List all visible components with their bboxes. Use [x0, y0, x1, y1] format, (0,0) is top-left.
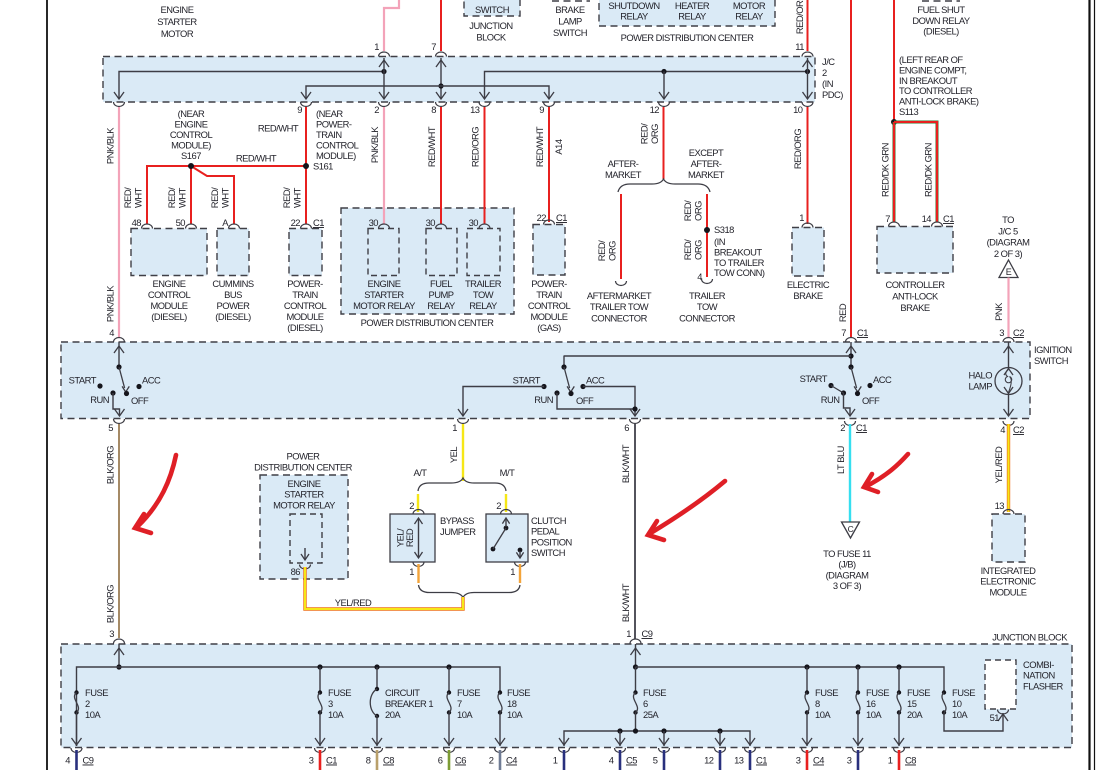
relay internal wire [301, 548, 309, 560]
svg-text:13: 13 [734, 755, 744, 766]
fuse 8 [802, 664, 838, 746]
svg-text:51: 51 [990, 712, 1000, 723]
svg-text:3: 3 [999, 327, 1004, 338]
svg-text:RED/WHT: RED/WHT [534, 126, 545, 167]
svg-text:BLK/ORG: BLK/ORG [105, 446, 116, 484]
svg-text:COMBI-: COMBI- [1023, 659, 1054, 670]
svg-text:FUSE: FUSE [815, 687, 838, 698]
fuse 3 [315, 664, 351, 746]
wire RED/WHT S167 to ECM pin 48 [122, 166, 191, 224]
svg-text:1: 1 [888, 755, 893, 766]
svg-text:RED/DK GRN: RED/DK GRN [923, 143, 934, 197]
ignition switch 3 (right) [564, 342, 892, 416]
svg-text:CONTROL: CONTROL [148, 289, 191, 300]
svg-text:C4: C4 [506, 755, 517, 766]
svg-text:TRAILER: TRAILER [689, 290, 726, 301]
svg-text:RELAY: RELAY [620, 11, 649, 22]
svg-text:7: 7 [457, 698, 462, 709]
wire RED/DK GRN S113 to controller pin 7 [880, 122, 895, 222]
svg-text:8: 8 [431, 104, 436, 115]
svg-text:(DIAGRAM: (DIAGRAM [826, 569, 870, 580]
svg-text:PNK/BLK: PNK/BLK [105, 127, 116, 164]
svg-text:16: 16 [866, 698, 876, 709]
S318 location note [714, 236, 765, 278]
svg-text:CONTROLLER: CONTROLLER [885, 279, 945, 290]
svg-text:1: 1 [510, 566, 515, 577]
pin 1 ignition [452, 419, 468, 433]
svg-text:ENGINE: ENGINE [368, 278, 401, 289]
svg-text:4: 4 [65, 755, 70, 766]
svg-text:(NEAR: (NEAR [178, 108, 205, 119]
svg-text:CONTROL: CONTROL [316, 140, 359, 151]
svg-text:2: 2 [840, 422, 845, 433]
junction block exit 3 C1 [309, 748, 337, 770]
svg-text:14: 14 [922, 213, 932, 224]
clutch pedal position switch caption [531, 515, 572, 558]
svg-text:CONTROL: CONTROL [170, 129, 213, 140]
svg-text:BLK/WHT: BLK/WHT [620, 444, 631, 483]
svg-text:PDC): PDC) [822, 89, 843, 100]
ignition switch 1 (left) [69, 338, 161, 417]
svg-text:ANTI-LOCK BRAKE): ANTI-LOCK BRAKE) [899, 96, 979, 107]
svg-text:SWITCH: SWITCH [553, 27, 587, 38]
svg-text:13: 13 [995, 500, 1005, 511]
junction block label (top) [469, 20, 512, 43]
svg-text:S161: S161 [313, 161, 333, 172]
svg-text:LT BLU: LT BLU [835, 445, 846, 474]
svg-text:TO TRAILER: TO TRAILER [714, 257, 765, 268]
svg-text:ENGINE: ENGINE [175, 119, 208, 130]
svg-text:10A: 10A [457, 709, 473, 720]
svg-text:RED/: RED/ [122, 187, 133, 208]
junction block exit 4 C9 [65, 748, 93, 770]
J/C2 top connectors [374, 41, 813, 57]
svg-text:LAMP: LAMP [968, 381, 992, 392]
svg-text:BLK/ORG: BLK/ORG [105, 585, 116, 623]
wire LT BLU ignition pin2 to fuse 11 [835, 424, 850, 522]
power distribution center box (top) [599, 0, 775, 26]
wire RED/DK GRN S113 to controller pin 14 [894, 122, 937, 222]
trailer tow relay box [467, 229, 500, 276]
svg-text:JUNCTION BLOCK: JUNCTION BLOCK [992, 632, 1068, 643]
after-market label [605, 158, 642, 180]
svg-text:PNK/BLK: PNK/BLK [369, 126, 380, 163]
svg-text:6: 6 [624, 422, 629, 433]
fuse 18 [495, 687, 530, 746]
svg-text:(DIESEL): (DIESEL) [923, 26, 959, 37]
svg-text:BRAKE: BRAKE [555, 4, 585, 15]
wire PNK connector E to ignition pin 3 [993, 278, 1009, 339]
svg-text:POSITION: POSITION [531, 536, 572, 547]
trailer tow connector caption [679, 290, 735, 323]
svg-text:7: 7 [431, 41, 436, 52]
junction block exit 12 [704, 748, 725, 770]
svg-text:FLASHER: FLASHER [1023, 680, 1063, 691]
svg-text:13: 13 [470, 104, 480, 115]
svg-text:30: 30 [369, 217, 379, 228]
wire PNK to J/C 2 pin 1 [384, 0, 399, 51]
svg-text:FUSE: FUSE [328, 687, 351, 698]
pin A [222, 217, 239, 229]
svg-text:RED/: RED/ [596, 240, 607, 261]
svg-text:C1: C1 [556, 212, 567, 223]
svg-text:RED/DK GRN: RED/DK GRN [880, 143, 891, 197]
svg-text:TOW CONN): TOW CONN) [714, 267, 765, 278]
svg-text:ORG: ORG [607, 241, 618, 261]
svg-text:TO CONTROLLER: TO CONTROLLER [899, 85, 973, 96]
svg-text:RED/: RED/ [682, 200, 693, 221]
svg-text:C1: C1 [326, 755, 337, 766]
powertrain control module diesel box [289, 229, 322, 276]
svg-text:RUN: RUN [534, 394, 553, 405]
trailer tow relay caption [465, 278, 502, 311]
svg-text:CONTROL: CONTROL [528, 300, 571, 311]
pin 5 ignition [108, 419, 124, 433]
svg-text:1: 1 [409, 566, 414, 577]
svg-text:1: 1 [626, 628, 631, 639]
svg-text:YEL/RED: YEL/RED [993, 446, 1004, 483]
svg-text:ORG: ORG [693, 201, 704, 221]
wire RED/ORG J/C2 pin12 to split [639, 107, 664, 179]
svg-text:1: 1 [452, 422, 457, 433]
J/C2 internal wire upper-right [480, 69, 811, 99]
to J/C 5 note [987, 214, 1031, 259]
integrated electronic module caption [980, 565, 1036, 597]
svg-text:9: 9 [539, 104, 544, 115]
svg-text:6: 6 [643, 698, 648, 709]
svg-text:1: 1 [374, 41, 379, 52]
junction block exit 13 C1 [734, 748, 767, 770]
svg-text:AFTER-: AFTER- [691, 158, 722, 169]
svg-text:S167: S167 [181, 150, 201, 161]
combination flasher caption [1023, 659, 1063, 691]
bypass jumper box [390, 514, 435, 562]
svg-text:2: 2 [822, 67, 827, 78]
svg-text:MODULE: MODULE [530, 311, 567, 322]
wire RED/ORG to J/C 2 pin 11 [794, 0, 808, 52]
wire ORG clutch switch pin 1 [510, 562, 525, 583]
junction block entry pin 1 C9 [630, 639, 641, 670]
wire RED/ORG to trailer tow connector via S318 [682, 194, 713, 284]
svg-text:MODULE): MODULE) [316, 150, 356, 161]
splice S167 label [170, 108, 213, 161]
svg-text:BLK/WHT: BLK/WHT [620, 583, 631, 622]
svg-text:MODULE): MODULE) [171, 140, 211, 151]
svg-text:2: 2 [409, 500, 414, 511]
motor relay label [733, 0, 766, 22]
wire YEL/RED merge to relay pin 86 [305, 567, 463, 609]
svg-text:FUSE: FUSE [507, 687, 530, 698]
svg-text:10A: 10A [952, 709, 968, 720]
pin 7 controller [885, 213, 899, 227]
svg-text:OFF: OFF [131, 395, 149, 406]
svg-text:RED/WHT: RED/WHT [426, 126, 437, 167]
A/T M/T split brace [418, 478, 506, 491]
pin 6 ignition [624, 419, 640, 433]
powertrain control module gas caption [528, 278, 571, 333]
svg-text:POWER-: POWER- [316, 119, 352, 130]
shutdown relay label [608, 0, 659, 22]
svg-text:C8: C8 [905, 755, 916, 766]
fuel shut down relay label [912, 1, 971, 37]
svg-text:25A: 25A [643, 709, 659, 720]
svg-text:1: 1 [799, 212, 804, 223]
svg-text:22: 22 [537, 212, 547, 223]
fuel pump relay caption [427, 278, 456, 311]
integrated electronic module box [992, 510, 1025, 563]
svg-text:START: START [800, 373, 828, 384]
J/C2 through wire pin7-pin8 [436, 58, 446, 99]
power distribution center box (middle) [341, 208, 514, 314]
wire BLK/ORG ignition pin5 to junction block pin 3 [105, 424, 120, 639]
svg-text:TRAILER TOW: TRAILER TOW [590, 301, 649, 312]
svg-text:NATION: NATION [1023, 670, 1055, 681]
svg-text:C9: C9 [642, 628, 653, 639]
svg-text:IGNITION: IGNITION [1034, 344, 1072, 355]
engine starter motor relay box (middle) [290, 514, 322, 563]
svg-text:9: 9 [297, 104, 302, 115]
svg-text:WHT: WHT [177, 187, 188, 208]
svg-text:C9: C9 [83, 755, 94, 766]
svg-text:RELAY: RELAY [735, 11, 764, 22]
junction block exit 1 C8 [888, 748, 916, 770]
wire RED from fuel shut down relay to S113 [893, 0, 895, 122]
svg-text:RELAY: RELAY [678, 11, 707, 22]
svg-text:8: 8 [366, 755, 371, 766]
wire RED/ORG J/C2 pin13 to trailer tow relay pin 30 [470, 107, 485, 224]
svg-text:2: 2 [85, 698, 90, 709]
svg-text:ACC: ACC [873, 374, 892, 385]
svg-text:BREAKOUT: BREAKOUT [714, 246, 762, 257]
ignition switch 2 (middle) [458, 356, 640, 417]
combination flasher box [985, 660, 1016, 709]
svg-text:DISTRIBUTION CENTER: DISTRIBUTION CENTER [254, 462, 353, 473]
powertrain control module gas box [533, 225, 565, 276]
svg-text:HEATER: HEATER [675, 0, 710, 11]
svg-text:18: 18 [507, 698, 517, 709]
pin 30 trailer tow relay [469, 217, 490, 229]
svg-text:TO: TO [1002, 214, 1014, 225]
svg-text:3 OF 3): 3 OF 3) [833, 580, 862, 591]
wire BLK/WHT ignition pin6 to junction block pin 1 C9 [620, 424, 653, 639]
svg-text:AFTER-: AFTER- [608, 158, 639, 169]
svg-text:20A: 20A [385, 709, 401, 720]
svg-text:ENGINE COMPT,: ENGINE COMPT, [899, 64, 966, 75]
junction block exit 4 C5 [609, 748, 637, 770]
wire RED/WHT J/C2 pin9 to PCM pin 22 via S161 [281, 107, 306, 224]
svg-text:RELAY: RELAY [469, 300, 498, 311]
svg-text:C8: C8 [383, 755, 394, 766]
svg-text:POWER DISTRIBUTION CENTER: POWER DISTRIBUTION CENTER [621, 32, 755, 43]
pin 14 controller [922, 213, 955, 227]
svg-text:RED/WHT: RED/WHT [258, 123, 299, 134]
annotation arrow (left) [135, 455, 176, 533]
svg-text:ACC: ACC [142, 375, 161, 386]
svg-text:ENGINE: ENGINE [288, 478, 321, 489]
svg-text:STARTER: STARTER [157, 16, 197, 27]
svg-text:STARTER: STARTER [364, 289, 404, 300]
junction block exit 3 [847, 748, 864, 770]
svg-text:10: 10 [793, 104, 803, 115]
junction block exit 6 C6 [438, 748, 466, 770]
svg-text:FUSE: FUSE [907, 687, 930, 698]
svg-text:BUS: BUS [224, 289, 242, 300]
svg-text:2: 2 [374, 104, 379, 115]
wire RED/ORG J/C2 pin10 to electric brake [792, 107, 813, 228]
wire YEL to bypass jumper pin 2 [409, 494, 424, 514]
svg-text:RED/ORG: RED/ORG [792, 129, 803, 169]
svg-text:(NEAR: (NEAR [316, 108, 343, 119]
svg-text:DOWN RELAY: DOWN RELAY [912, 15, 971, 26]
svg-text:4: 4 [109, 327, 114, 338]
fuse 6 [633, 667, 666, 731]
J/C2 bottom connectors [114, 102, 814, 115]
pin 22 C1 PCM gas [537, 212, 568, 225]
svg-text:86: 86 [291, 566, 301, 577]
J/C2 through wire pin11-pin10 [803, 58, 813, 99]
svg-text:PEDAL: PEDAL [531, 526, 560, 537]
svg-text:ELECTRIC: ELECTRIC [787, 279, 830, 290]
svg-text:3: 3 [847, 755, 852, 766]
svg-text:7: 7 [885, 213, 890, 224]
wire RED/WHT J/C2 pin8 to fuel pump relay pin 30 [426, 107, 441, 224]
svg-text:FUEL: FUEL [430, 278, 452, 289]
svg-text:(IN: (IN [714, 236, 725, 247]
pin 51 combination flasher [990, 710, 1009, 724]
svg-text:START: START [69, 375, 97, 386]
svg-text:1: 1 [553, 755, 558, 766]
engine control module box [131, 229, 207, 276]
svg-text:MARKET: MARKET [605, 169, 642, 180]
svg-text:12: 12 [704, 755, 714, 766]
svg-text:15: 15 [907, 698, 917, 709]
power distribution center box (relay area) [260, 475, 348, 579]
svg-text:5: 5 [108, 422, 113, 433]
left bus bar [77, 667, 501, 746]
svg-text:RED: RED [404, 528, 415, 547]
cummins bus power box [217, 229, 249, 276]
connector C triangle [842, 522, 860, 538]
svg-text:11: 11 [795, 41, 804, 52]
svg-text:RED/: RED/ [682, 239, 693, 260]
wire YEL ignition pin1 to A/T-M/T split [448, 424, 463, 481]
svg-text:MODULE: MODULE [286, 311, 323, 322]
svg-text:PUMP: PUMP [428, 289, 453, 300]
svg-text:(LEFT REAR OF: (LEFT REAR OF [899, 54, 963, 65]
svg-text:C2: C2 [1013, 424, 1024, 435]
right page border [1090, 0, 1095, 770]
ignition switch box [61, 342, 1030, 419]
svg-text:SHUTDOWN: SHUTDOWN [608, 0, 659, 11]
wire RED/ORG to aftermarket trailer tow connector [596, 194, 627, 286]
svg-text:10: 10 [952, 698, 962, 709]
heater relay label [675, 0, 710, 22]
svg-text:ORG: ORG [693, 240, 704, 260]
svg-text:PNK: PNK [993, 302, 1004, 321]
wire RED/WHT S167 to Cummins pin A [191, 166, 234, 224]
fuel pump relay box [426, 229, 457, 276]
power distribution center label (middle area) [254, 451, 353, 473]
svg-text:RED/: RED/ [281, 187, 292, 208]
svg-text:TOW: TOW [473, 289, 494, 300]
svg-text:FUEL SHUT: FUEL SHUT [917, 4, 965, 15]
svg-text:RED/ORG: RED/ORG [794, 0, 805, 34]
svg-text:WHT: WHT [133, 187, 144, 208]
halo lamp [968, 342, 1022, 416]
svg-text:POWER DISTRIBUTION CENTER: POWER DISTRIBUTION CENTER [361, 317, 495, 328]
svg-text:A/T: A/T [413, 467, 427, 478]
svg-text:3: 3 [796, 755, 801, 766]
svg-text:3: 3 [309, 755, 314, 766]
pin 22 C1 [291, 217, 325, 229]
wire RED/WHT A14 J/C2 pin9 to PCM gas pin 22 [534, 107, 564, 222]
svg-text:YEL: YEL [448, 447, 459, 464]
svg-text:C1: C1 [313, 217, 324, 228]
svg-text:MODULE: MODULE [150, 300, 187, 311]
svg-text:BLOCK: BLOCK [476, 32, 507, 43]
svg-text:EXCEPT: EXCEPT [689, 147, 724, 158]
splice S113 [891, 119, 897, 125]
svg-text:FUSE: FUSE [457, 687, 480, 698]
svg-text:M/T: M/T [500, 467, 515, 478]
svg-text:YEL/RED: YEL/RED [335, 597, 372, 608]
svg-text:7: 7 [841, 327, 846, 338]
cummins bus power caption [212, 278, 254, 322]
svg-text:JUMPER: JUMPER [440, 526, 476, 537]
svg-text:RED/: RED/ [639, 123, 650, 144]
svg-text:FUSE: FUSE [952, 687, 975, 698]
engine starter motor label [157, 4, 197, 39]
svg-text:MOTOR RELAY: MOTOR RELAY [353, 300, 416, 311]
svg-text:MODULE: MODULE [989, 586, 1026, 597]
svg-text:22: 22 [291, 217, 301, 228]
svg-text:10A: 10A [815, 709, 831, 720]
svg-text:ACC: ACC [586, 375, 605, 386]
annotation arrow (middle) [648, 481, 725, 540]
wire RED to J/C 2 pin 7 [440, 0, 442, 51]
svg-text:C5: C5 [626, 755, 637, 766]
svg-text:LAMP: LAMP [558, 16, 582, 27]
svg-text:C6: C6 [455, 755, 466, 766]
junction block exit 2 C4 [489, 748, 517, 770]
J/C2 through wire pin1-pin2 [379, 58, 389, 99]
svg-text:8: 8 [815, 698, 820, 709]
bypass jumper internal wire [395, 518, 423, 558]
svg-text:(DIESEL): (DIESEL) [215, 311, 251, 322]
svg-text:CLUTCH: CLUTCH [531, 515, 566, 526]
svg-text:2: 2 [489, 755, 494, 766]
svg-text:STARTER: STARTER [284, 489, 324, 500]
svg-text:RED/ORG: RED/ORG [470, 127, 481, 167]
svg-text:JUNCTION: JUNCTION [469, 20, 512, 31]
svg-text:FUSE: FUSE [866, 687, 889, 698]
junction block exit 1 [553, 748, 570, 770]
wire ORG bypass jumper pin 1 [409, 562, 424, 583]
svg-text:RUN: RUN [90, 394, 109, 405]
svg-text:BRAKE: BRAKE [793, 290, 823, 301]
svg-text:10A: 10A [507, 709, 523, 720]
engine control module caption [148, 278, 191, 322]
wire RED/WHT S167 to S161 [191, 165, 306, 167]
svg-text:OFF: OFF [576, 395, 594, 406]
svg-text:2 OF 3): 2 OF 3) [994, 248, 1023, 259]
svg-text:POWER: POWER [287, 451, 321, 462]
svg-text:MOTOR: MOTOR [161, 28, 194, 39]
svg-text:J/C: J/C [822, 56, 835, 67]
junction block entry pin 3 [114, 639, 125, 670]
svg-text:C1: C1 [857, 327, 868, 338]
brake lamp switch label [552, 1, 590, 38]
